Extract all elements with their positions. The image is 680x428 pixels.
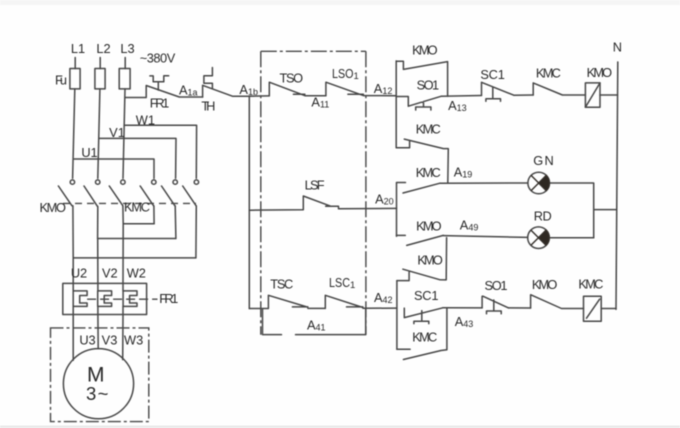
svg-text:KMC: KMC (416, 165, 441, 180)
svg-text:L2: L2 (96, 41, 110, 56)
svg-text:KMC: KMC (536, 66, 561, 81)
svg-text:KMO: KMO (412, 43, 438, 58)
svg-text:FR1: FR1 (159, 291, 178, 306)
svg-text:FR1: FR1 (150, 96, 170, 111)
svg-text:KMO: KMO (532, 277, 558, 292)
svg-text:U1: U1 (81, 145, 97, 160)
svg-text:KMO: KMO (587, 65, 613, 80)
svg-text:1: 1 (354, 71, 359, 82)
svg-text:LSF: LSF (305, 178, 325, 193)
svg-text:V3: V3 (102, 333, 118, 348)
svg-text:LSC: LSC (329, 275, 350, 290)
svg-text:W2: W2 (127, 265, 146, 280)
svg-text:V1: V1 (109, 125, 125, 140)
svg-text:KMO: KMO (416, 218, 442, 233)
svg-text:SC1: SC1 (414, 288, 439, 303)
svg-text:TSC: TSC (270, 276, 293, 291)
svg-text:RD: RD (534, 208, 552, 223)
svg-text:LSO: LSO (332, 66, 354, 81)
svg-text:~380V: ~380V (140, 51, 176, 66)
svg-text:KMC: KMC (416, 121, 441, 136)
svg-text:1: 1 (350, 280, 355, 291)
svg-text:L1: L1 (71, 41, 85, 56)
svg-text:N: N (613, 40, 622, 55)
svg-text:W3: W3 (124, 333, 143, 348)
svg-text:Fu: Fu (55, 72, 67, 87)
svg-text:KMC: KMC (124, 199, 150, 214)
svg-text:SC1: SC1 (480, 67, 505, 82)
svg-text:SO1: SO1 (485, 278, 508, 293)
svg-text:KMO: KMO (39, 200, 66, 215)
svg-text:3~: 3~ (86, 383, 109, 404)
svg-text:KMC: KMC (412, 329, 437, 344)
svg-text:U3: U3 (79, 333, 95, 348)
svg-text:V2: V2 (102, 265, 118, 280)
svg-text:W1: W1 (136, 113, 155, 128)
svg-text:U2: U2 (71, 265, 87, 280)
svg-text:KMC: KMC (578, 277, 603, 292)
svg-text:KMO: KMO (417, 253, 443, 268)
svg-text:SO1: SO1 (417, 78, 440, 93)
svg-text:TSO: TSO (280, 71, 304, 86)
svg-text:TH: TH (201, 99, 215, 114)
svg-text:L3: L3 (120, 41, 134, 56)
